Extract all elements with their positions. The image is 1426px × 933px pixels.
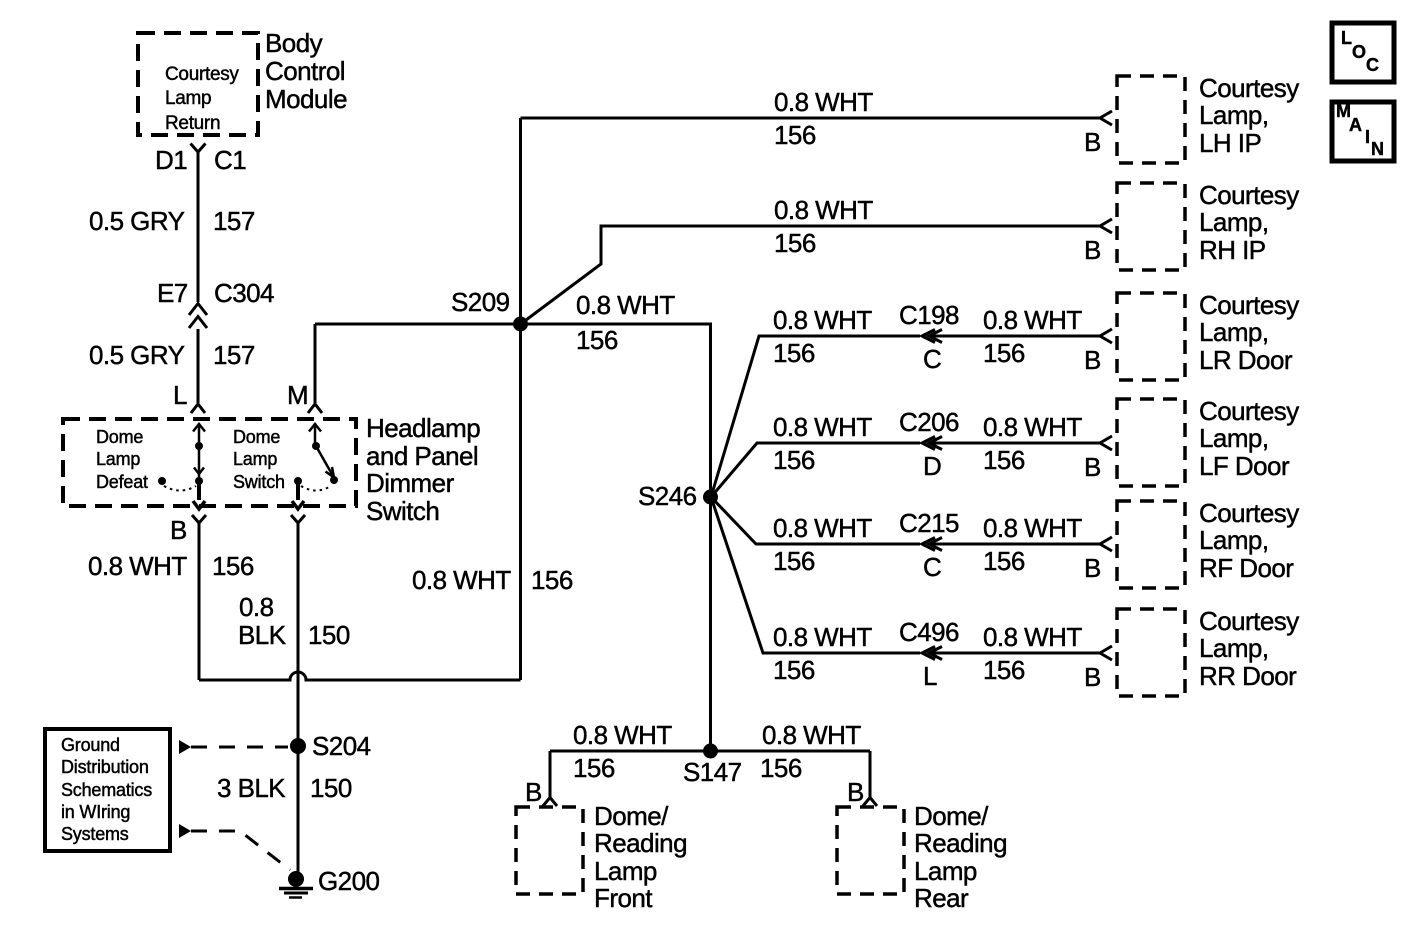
- svg-text:D1: D1: [155, 145, 187, 175]
- svg-text:N: N: [1371, 139, 1384, 159]
- wire S209 to S246 riser: [521, 324, 711, 751]
- svg-text:156: 156: [983, 445, 1025, 475]
- svg-text:Courtesy: Courtesy: [1199, 180, 1299, 210]
- pin B label row2: [1084, 235, 1101, 265]
- svg-text:Courtesy: Courtesy: [1199, 606, 1299, 636]
- svg-text:156: 156: [774, 228, 816, 258]
- pin B label: [170, 515, 187, 545]
- wire S209 to M pin: [315, 323, 521, 326]
- svg-text:Front: Front: [594, 883, 653, 913]
- svg-text:0.8 WHT: 0.8 WHT: [983, 513, 1082, 543]
- svg-text:L: L: [1341, 28, 1352, 48]
- headlamp and panel dimmer switch label: [366, 413, 480, 526]
- svg-text:Dome: Dome: [96, 427, 143, 447]
- svg-text:Switch: Switch: [366, 496, 439, 526]
- dome reading lamp rear box: [837, 807, 904, 894]
- courtesy lamp LH IP box: [1117, 76, 1185, 163]
- ground G200 label: [318, 866, 379, 896]
- pin connector symbol at BCM: [191, 144, 206, 153]
- svg-text:156: 156: [773, 445, 815, 475]
- svg-text:LR Door: LR Door: [1199, 345, 1293, 375]
- wire label 0.8 WHT 156 at S209: [576, 290, 675, 355]
- pin chevron LR door: [1100, 329, 1112, 343]
- svg-text:Lamp,: Lamp,: [1199, 100, 1269, 130]
- svg-text:Reading: Reading: [594, 828, 687, 858]
- wire branch to RR door: [711, 497, 1100, 653]
- svg-text:C496: C496: [899, 617, 959, 647]
- wire drop to dome lamp front: [549, 751, 552, 797]
- connector C496 chevron: [922, 647, 942, 660]
- svg-text:RF Door: RF Door: [1199, 553, 1294, 583]
- pin B chevron of defeat: [192, 515, 206, 523]
- svg-text:Lamp,: Lamp,: [1199, 207, 1269, 237]
- MAIN legend box: [1332, 102, 1394, 161]
- svg-text:D: D: [923, 451, 941, 481]
- splice S147 label: [683, 757, 742, 787]
- svg-text:Body: Body: [265, 28, 323, 58]
- splice S209 label: [451, 287, 510, 317]
- svg-text:B: B: [1084, 127, 1101, 157]
- svg-text:Distribution: Distribution: [61, 757, 149, 777]
- splice S246 label: [638, 481, 697, 511]
- svg-text:B: B: [1084, 452, 1101, 482]
- svg-text:156: 156: [760, 753, 802, 783]
- svg-text:150: 150: [308, 620, 350, 650]
- svg-text:B: B: [1084, 662, 1101, 692]
- svg-text:0.8 WHT: 0.8 WHT: [412, 565, 511, 595]
- svg-text:Control: Control: [265, 56, 345, 86]
- svg-text:156: 156: [983, 546, 1025, 576]
- dome lamp defeat switch arm: [158, 424, 205, 509]
- svg-text:C: C: [923, 552, 941, 582]
- svg-text:O: O: [1352, 42, 1366, 62]
- svg-text:C215: C215: [899, 508, 959, 538]
- wire label 0.8 WHT 156 row1: [774, 87, 873, 150]
- svg-text:L: L: [923, 661, 937, 691]
- svg-text:156: 156: [573, 753, 615, 783]
- pin M chevron: [308, 404, 322, 413]
- svg-text:156: 156: [774, 120, 816, 150]
- svg-text:156: 156: [983, 338, 1025, 368]
- svg-text:A: A: [1349, 115, 1362, 135]
- svg-text:S147: S147: [683, 757, 742, 787]
- svg-text:B: B: [1084, 235, 1101, 265]
- svg-text:156: 156: [773, 546, 815, 576]
- wire branch to LR door: [711, 336, 1100, 497]
- wire label 0.5 GRY 157: [89, 206, 255, 236]
- svg-text:E7: E7: [157, 278, 188, 308]
- svg-text:0.8 WHT: 0.8 WHT: [983, 305, 1082, 335]
- courtesy lamp RF Door box: [1117, 501, 1185, 588]
- pointer arrow to G200: [179, 824, 191, 838]
- pin B label dome front: [525, 777, 542, 807]
- courtesy lamp RH IP box: [1117, 183, 1185, 270]
- svg-text:156: 156: [773, 338, 815, 368]
- svg-text:Return: Return: [165, 113, 220, 134]
- dome lamp switch label: [233, 427, 285, 492]
- ground distribution note label: [61, 735, 152, 844]
- wire 0.8 BLK 150 label: [238, 592, 350, 650]
- svg-text:0.8 WHT: 0.8 WHT: [983, 412, 1082, 442]
- pin B label row1: [1084, 127, 1101, 157]
- wire M pin vertical: [314, 324, 317, 403]
- svg-text:Lamp,: Lamp,: [1199, 633, 1269, 663]
- svg-text:Dimmer: Dimmer: [366, 468, 455, 498]
- connector C206 chevron: [922, 437, 942, 450]
- svg-text:C: C: [1366, 55, 1379, 75]
- courtesy lamp RR Door label: [1199, 606, 1299, 691]
- wire B pin down: [198, 523, 201, 680]
- pin chevron LF door: [1100, 436, 1112, 450]
- svg-text:L: L: [173, 380, 187, 410]
- wire top to courtesy lamp LH IP: [521, 117, 1101, 120]
- svg-text:Dome/: Dome/: [914, 801, 989, 831]
- LOC legend letters: [1341, 28, 1379, 75]
- svg-text:0.8 WHT: 0.8 WHT: [773, 412, 872, 442]
- svg-text:B: B: [525, 777, 542, 807]
- splice S246: [703, 490, 718, 505]
- svg-text:RH IP: RH IP: [1199, 235, 1266, 265]
- dashed pointer line to G200: [191, 831, 290, 870]
- svg-text:Dome/: Dome/: [594, 801, 669, 831]
- wire drop to dome lamp rear: [869, 751, 872, 797]
- svg-text:Courtesy: Courtesy: [1199, 396, 1299, 426]
- connector C198 chevron: [922, 330, 942, 343]
- wire label 0.8 WHT 156 row2: [774, 195, 873, 258]
- wire bottom horizontal with hop over BLK wire: [199, 672, 521, 680]
- wire labels branch C206 row: [773, 407, 1101, 482]
- wire label 0.5 GRY 157 lower: [89, 340, 255, 370]
- svg-text:Lamp,: Lamp,: [1199, 423, 1269, 453]
- body control module box: [138, 33, 258, 135]
- svg-text:Systems: Systems: [61, 824, 129, 844]
- wire dome lamp switch to ground: [297, 523, 300, 872]
- svg-text:Courtesy: Courtesy: [1199, 290, 1299, 320]
- svg-text:0.8 WHT: 0.8 WHT: [773, 622, 872, 652]
- svg-text:Courtesy: Courtesy: [1199, 73, 1299, 103]
- courtesy lamp RF Door label: [1199, 498, 1299, 583]
- wire S147 horizontal: [550, 750, 870, 753]
- connector pins D1 C1: [155, 145, 246, 175]
- svg-text:M: M: [287, 380, 308, 410]
- svg-text:Lamp,: Lamp,: [1199, 317, 1269, 347]
- courtesy lamp RR Door box: [1117, 609, 1185, 696]
- switch output chevron: [291, 515, 305, 523]
- svg-text:Lamp: Lamp: [594, 856, 657, 886]
- courtesy lamp LR Door box: [1117, 293, 1185, 380]
- connector C215 chevron: [922, 538, 942, 551]
- svg-text:156: 156: [773, 655, 815, 685]
- wire labels branch C215 row: [773, 508, 1101, 583]
- body control module label: [265, 28, 347, 114]
- svg-text:0.8 WHT: 0.8 WHT: [773, 305, 872, 335]
- pin labels L and M: [173, 380, 308, 410]
- wire label 0.8 WHT 156 mid: [412, 565, 573, 595]
- svg-text:C304: C304: [214, 278, 274, 308]
- svg-text:Reading: Reading: [914, 828, 1007, 858]
- svg-text:in WIring: in WIring: [61, 802, 130, 822]
- pin chevron RF door: [1100, 537, 1112, 551]
- wire to courtesy lamp RH IP: [522, 226, 1100, 323]
- LOC legend box: [1332, 23, 1394, 82]
- svg-text:B: B: [1084, 345, 1101, 375]
- courtesy lamp LF Door box: [1117, 399, 1185, 486]
- connector C304 labels E7: [157, 278, 274, 308]
- svg-text:0.8: 0.8: [239, 592, 274, 622]
- svg-text:0.8 WHT: 0.8 WHT: [762, 720, 861, 750]
- splice S204 label: [312, 731, 371, 761]
- wire 0.8 WHT 156 label left: [88, 551, 254, 581]
- svg-text:BLK: BLK: [238, 620, 287, 650]
- wire branch to RF door: [711, 497, 1100, 544]
- svg-text:Courtesy: Courtesy: [165, 64, 239, 85]
- wire 0.5 GRY 157 lower: [197, 329, 200, 403]
- dome reading lamp front label: [594, 801, 687, 913]
- courtesy lamp return label: [165, 64, 239, 134]
- svg-text:Lamp: Lamp: [96, 449, 140, 469]
- svg-text:0.5 GRY: 0.5 GRY: [89, 206, 185, 236]
- wire 0.5 GRY 157 upper: [197, 152, 200, 302]
- svg-text:and Panel: and Panel: [366, 441, 478, 471]
- svg-text:S246: S246: [638, 481, 697, 511]
- splice S147: [703, 744, 718, 759]
- splice S204: [290, 738, 306, 754]
- svg-text:3 BLK: 3 BLK: [217, 773, 286, 803]
- svg-text:0.8 WHT: 0.8 WHT: [576, 290, 675, 320]
- courtesy lamp LR Door label: [1199, 290, 1299, 375]
- svg-text:Lamp: Lamp: [914, 856, 977, 886]
- pin chevron RR door: [1100, 646, 1112, 660]
- svg-text:I: I: [1365, 127, 1370, 147]
- svg-text:156: 156: [212, 551, 254, 581]
- dome lamp switch arm: [292, 424, 338, 509]
- splice S209: [513, 317, 528, 332]
- svg-text:S209: S209: [451, 287, 510, 317]
- svg-text:RR Door: RR Door: [1199, 661, 1297, 691]
- dome reading lamp front box: [516, 807, 583, 894]
- wire labels branch C198 row: [773, 300, 1101, 375]
- svg-text:C: C: [923, 344, 941, 374]
- wire label 0.8 WHT 156 S147 left: [573, 720, 672, 783]
- svg-text:156: 156: [576, 325, 618, 355]
- svg-text:0.8 WHT: 0.8 WHT: [774, 195, 873, 225]
- svg-text:Headlamp: Headlamp: [366, 413, 480, 443]
- svg-text:B: B: [847, 777, 864, 807]
- wire label 3 BLK 150: [217, 773, 352, 803]
- pin L chevron: [191, 404, 205, 413]
- wire main vertical riser: [519, 118, 522, 680]
- dome reading lamp rear label: [914, 801, 1007, 913]
- svg-text:Defeat: Defeat: [96, 472, 148, 492]
- svg-text:0.5 GRY: 0.5 GRY: [89, 340, 185, 370]
- svg-text:Lamp: Lamp: [233, 449, 277, 469]
- wire branch to LF door: [711, 443, 1100, 497]
- MAIN legend letters: [1336, 101, 1384, 159]
- svg-text:0.8 WHT: 0.8 WHT: [773, 513, 872, 543]
- svg-text:157: 157: [213, 206, 255, 236]
- svg-text:Dome: Dome: [233, 427, 280, 447]
- svg-text:0.8 WHT: 0.8 WHT: [88, 551, 187, 581]
- pin chevron RH IP: [1100, 219, 1112, 233]
- svg-text:C1: C1: [214, 145, 246, 175]
- svg-text:0.8 WHT: 0.8 WHT: [983, 622, 1082, 652]
- svg-text:156: 156: [531, 565, 573, 595]
- svg-text:Module: Module: [265, 84, 347, 114]
- svg-text:LH IP: LH IP: [1199, 128, 1261, 158]
- svg-text:Lamp,: Lamp,: [1199, 525, 1269, 555]
- svg-text:C198: C198: [899, 300, 959, 330]
- wire label 0.8 WHT 156 S147 right: [760, 720, 861, 783]
- svg-text:150: 150: [310, 773, 352, 803]
- courtesy lamp LF Door label: [1199, 396, 1299, 481]
- svg-text:G200: G200: [318, 866, 379, 896]
- courtesy lamp RH IP label: [1199, 180, 1299, 265]
- pin B label dome rear: [847, 777, 864, 807]
- dome lamp defeat label: [96, 427, 148, 492]
- svg-text:Ground: Ground: [61, 735, 120, 755]
- svg-text:B: B: [170, 515, 187, 545]
- pin chevron LH IP: [1100, 111, 1112, 125]
- svg-text:0.8 WHT: 0.8 WHT: [573, 720, 672, 750]
- connector C304 double chevron: [189, 304, 207, 329]
- pin chevron dome rear: [863, 798, 877, 807]
- headlamp dimmer switch box: [63, 419, 356, 506]
- svg-text:0.8 WHT: 0.8 WHT: [774, 87, 873, 117]
- svg-text:Lamp: Lamp: [165, 88, 211, 109]
- pointer arrow to S204: [179, 740, 191, 754]
- courtesy lamp LH IP label: [1199, 73, 1299, 158]
- pin chevron dome front: [543, 798, 557, 807]
- svg-text:Courtesy: Courtesy: [1199, 498, 1299, 528]
- dashed pointer line to S204: [191, 746, 288, 749]
- svg-text:156: 156: [983, 655, 1025, 685]
- svg-text:Switch: Switch: [233, 472, 285, 492]
- ground distribution note box: [45, 729, 170, 851]
- ground G200: [279, 871, 313, 898]
- svg-text:Rear: Rear: [914, 883, 969, 913]
- svg-text:B: B: [1084, 553, 1101, 583]
- svg-text:LF Door: LF Door: [1199, 451, 1290, 481]
- svg-text:157: 157: [213, 340, 255, 370]
- wire labels branch C496 row: [773, 617, 1101, 692]
- svg-text:C206: C206: [899, 407, 959, 437]
- svg-text:S204: S204: [312, 731, 371, 761]
- svg-text:Schematics: Schematics: [61, 780, 152, 800]
